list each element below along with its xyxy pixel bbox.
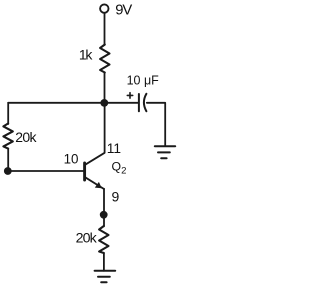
svg-text:Q2: Q2 (112, 160, 127, 177)
wire (7, 149, 9, 172)
plus sign (127, 93, 132, 98)
terminal 9V (100, 4, 108, 12)
node dot emitter pin9 (100, 211, 108, 219)
wire (7, 103, 9, 124)
svg-text:20k: 20k (15, 129, 37, 145)
svg-text:20k: 20k (76, 230, 98, 246)
resistor R3 20k (99, 226, 108, 253)
wire base (8, 170, 83, 172)
resistor R1 1k (100, 45, 109, 73)
resistor R2 20k (3, 124, 12, 149)
wire cap left (104, 102, 138, 104)
transistor Q2 emitter (85, 177, 104, 189)
transistor Q2 emitter arrow (95, 182, 102, 188)
capacitor C1 plate+ (138, 94, 140, 111)
svg-text:1k: 1k (79, 47, 93, 63)
svg-text:10 μF: 10 μF (127, 73, 160, 87)
svg-text:9: 9 (112, 188, 120, 204)
svg-text:9V: 9V (115, 3, 132, 19)
ground bottom (95, 271, 116, 283)
wire cap right (147, 103, 165, 146)
wire (103, 189, 105, 227)
capacitor C1 plate- (144, 94, 147, 111)
wire (104, 13, 106, 45)
transistor Q2 collector (85, 103, 105, 165)
transistor Q2 base bar (83, 163, 86, 180)
wire (104, 73, 106, 104)
svg-text:11: 11 (107, 141, 121, 156)
wire (8, 102, 104, 104)
wire (103, 253, 105, 271)
ground right (155, 146, 175, 158)
node dot base (4, 167, 12, 175)
node dot collector (100, 99, 108, 107)
svg-text:10: 10 (64, 152, 79, 167)
